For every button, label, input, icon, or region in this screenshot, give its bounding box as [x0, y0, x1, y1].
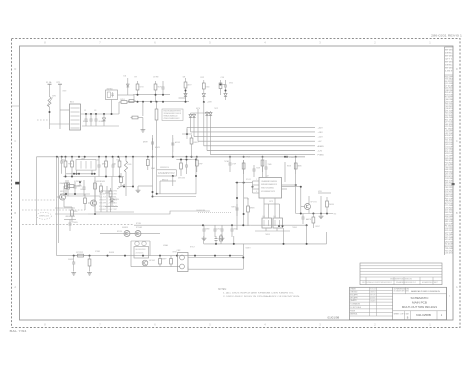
label value 45	[315, 226, 321, 228]
svg-text:ZWMUUCR4MAPKUHVR2: ZWMUUCR4MAPKUHVR2	[164, 117, 180, 120]
wire dashed line sense 2	[22, 209, 85, 211]
svg-text:V8NCT4V42MM12: V8NCT4V42MM12	[261, 188, 274, 190]
wire Q1 collector	[63, 186, 65, 194]
junction T1 b	[152, 196, 154, 198]
label R32	[329, 204, 335, 206]
U5 text2	[136, 252, 145, 254]
zone number bottom 6	[154, 323, 156, 327]
svg-text:2. NXN U56FC NVGV IN 2Z94NA AN: 2. NXN U56FC NVGV IN 2Z94NA ANXX OF FBCM…	[223, 295, 301, 298]
junction lrr c	[320, 213, 322, 215]
label value 21	[199, 163, 204, 165]
capacitor C33	[302, 214, 305, 225]
junction lr a	[215, 243, 217, 245]
label value 4	[99, 120, 104, 123]
zone letter left D	[14, 67, 16, 71]
label C3	[94, 110, 96, 112]
sheet inner border	[20, 46, 454, 320]
fold tick left margin	[12, 105, 20, 107]
resistor R33	[75, 254, 88, 257]
svg-text:B44KSMS2RER: B44KSMS2RER	[136, 249, 147, 251]
label value 50	[269, 201, 274, 203]
wire sec label line	[318, 192, 331, 194]
title block row value 3	[370, 294, 376, 296]
svg-text:B&L 7/94: B&L 7/94	[10, 329, 27, 333]
wire U5 left	[130, 241, 132, 267]
svg-text:FDM5: FDM5	[128, 164, 132, 166]
svg-text:+5V: +5V	[318, 141, 322, 143]
junction lr b	[233, 243, 235, 245]
notes line 1	[223, 291, 295, 294]
wire loop inner 3	[159, 181, 161, 194]
label value 26	[287, 165, 292, 167]
wire loop inner 2	[160, 180, 176, 182]
svg-text:+42V: +42V	[318, 127, 324, 129]
capacitor C34	[74, 182, 77, 194]
svg-text:573G: 573G	[140, 86, 145, 88]
wire opto drop 1	[265, 228, 267, 231]
U2 pin numbers left	[256, 179, 257, 181]
wire x237 below	[236, 183, 238, 230]
svg-text:AMERICAN POWER CONVERSION: AMERICAN POWER CONVERSION	[411, 290, 440, 293]
wire opto feed 4	[279, 204, 281, 218]
wire lr riser mid	[306, 225, 308, 244]
wire x243 below	[243, 183, 245, 226]
wire R30 top v	[247, 198, 249, 200]
choke box L2	[76, 160, 96, 171]
wire Q5 emit	[308, 209, 310, 213]
label U2 pins	[246, 179, 251, 181]
label Q6	[122, 227, 129, 229]
svg-text:AN77: AN77	[188, 83, 192, 86]
svg-text:REF DES: REF DES	[445, 50, 453, 52]
junction bus 20	[243, 156, 245, 158]
revision row text b	[396, 281, 417, 284]
junction bus 15	[172, 156, 174, 158]
junction DC+ d	[103, 113, 105, 115]
potentiometer VR1 arrow	[117, 184, 133, 189]
net label +42V	[318, 127, 324, 129]
svg-text:ZKHBPLCUZG: ZKHBPLCUZG	[39, 215, 49, 217]
svg-text:R7: R7	[135, 77, 137, 79]
U2 pin numbers left 2	[256, 191, 257, 193]
junction Q1c	[79, 181, 81, 183]
zone letter left B	[14, 211, 16, 215]
wire AC-L lower	[49, 107, 51, 129]
wire gnd spur	[137, 186, 139, 189]
svg-text:SIZE: SIZE	[406, 314, 409, 316]
junction low1 a	[202, 224, 204, 226]
zone letter left A	[14, 285, 16, 289]
zone number bottom 2	[374, 323, 376, 327]
label U2	[266, 175, 269, 177]
svg-text:C10: C10	[221, 77, 224, 79]
wire q6q7 link	[130, 233, 135, 235]
svg-text:DESC: DESC	[445, 53, 454, 55]
label U3	[263, 216, 265, 218]
resistor R43	[180, 160, 183, 177]
title block row label 4	[350, 296, 357, 299]
svg-text:UL72: UL72	[99, 197, 106, 199]
wire diode feed	[191, 112, 211, 114]
svg-text:5NG31: 5NG31	[77, 185, 82, 187]
wire bus drop 2	[190, 120, 192, 132]
label Q5	[311, 202, 317, 204]
junction bus 5	[78, 156, 80, 158]
svg-text:EKZS3: EKZS3	[81, 189, 86, 191]
title block row label 6	[350, 303, 360, 306]
zone number top 1	[429, 41, 431, 45]
wire bus drop 4	[197, 116, 199, 141]
wire primary bus	[37, 156, 306, 158]
wire x262 above	[262, 160, 264, 178]
junction x243 b	[243, 213, 245, 215]
title line schematic	[411, 296, 430, 300]
label C35	[73, 222, 79, 224]
junction U2 out	[295, 184, 297, 186]
capacitor C26	[215, 236, 218, 244]
svg-text:KWNSZSX2G: KWNSZSX2G	[160, 167, 169, 169]
junction rail2 e	[162, 101, 164, 103]
wire low main bus	[60, 255, 243, 257]
wire AC-N	[59, 84, 61, 129]
wire Q3 emit	[94, 206, 96, 212]
callout text	[39, 215, 49, 217]
svg-text:9W4DS: 9W4DS	[329, 204, 335, 206]
capacitor C19	[253, 165, 256, 177]
junction lowbus 1	[73, 255, 75, 257]
wire CN2 pin2	[188, 268, 243, 270]
resistor R18	[105, 157, 108, 177]
svg-text:UWTLXN3: UWTLXN3	[178, 178, 185, 180]
svg-text:FM5D: FM5D	[74, 211, 79, 213]
drawing number	[416, 313, 431, 317]
svg-text:RL7SD: RL7SD	[83, 121, 89, 123]
wire D14 bottom rail	[105, 206, 118, 208]
wire lr riser right	[326, 232, 328, 244]
resistor R29	[261, 157, 264, 172]
wire opto feed h	[264, 203, 280, 205]
wire bus net +5V	[198, 140, 315, 142]
svg-text:C: C	[14, 139, 16, 143]
junction bus 2	[61, 156, 63, 158]
junction CN2 r	[242, 257, 244, 259]
junction bus 22	[286, 156, 288, 158]
capacitor C18	[229, 157, 232, 172]
svg-text:6LP85Z4X: 6LP85Z4X	[74, 181, 83, 183]
svg-text:64WVM2HRD: 64WVM2HRD	[96, 181, 105, 183]
junction AC-L	[49, 111, 51, 113]
diode D11	[192, 113, 195, 120]
diode D9	[224, 92, 227, 100]
wire U2 out1	[282, 184, 296, 186]
svg-text:WPDSK: WPDSK	[109, 194, 119, 196]
label loop	[162, 179, 169, 181]
right edge center mark	[452, 183, 455, 185]
feedback loop wire	[157, 160, 196, 194]
svg-text:CSVFFD1RF: CSVFFD1RF	[196, 210, 206, 212]
wire MOV stub dashed	[37, 119, 50, 121]
label value 2	[63, 90, 68, 92]
svg-text:REF DES: REF DES	[445, 56, 453, 58]
resistor R9	[154, 81, 157, 102]
transistor Q7	[135, 231, 141, 237]
label C34	[77, 185, 82, 187]
svg-text:C: C	[456, 139, 458, 143]
wire U2 left drop	[252, 181, 254, 193]
zone col letter	[449, 296, 451, 298]
note box text row 2	[164, 112, 182, 115]
junction bus 1	[56, 156, 58, 158]
svg-text:01/01/98: 01/01/98	[328, 315, 340, 319]
svg-text:MAIN PCB: MAIN PCB	[412, 300, 427, 304]
reference U5 circle A	[135, 241, 139, 245]
label value 16	[128, 164, 132, 166]
junction rail1 b	[155, 94, 157, 96]
zone letter right D	[456, 67, 458, 71]
label value 38	[163, 244, 168, 247]
zone number top 4	[264, 41, 266, 45]
note box text row 4	[164, 117, 180, 120]
label BD1	[70, 102, 75, 104]
label value 36	[95, 251, 100, 253]
wire G7 stub	[320, 214, 322, 216]
label value 3	[83, 121, 89, 123]
snubber box Z1	[106, 90, 118, 100]
resistor R31	[312, 214, 315, 229]
title block row label 9	[350, 313, 357, 316]
wire x300 seg	[300, 187, 302, 214]
svg-text:SG8BFS: SG8BFS	[122, 227, 129, 229]
svg-text:SHEET 1 OF 2: SHEET 1 OF 2	[394, 314, 405, 316]
zone letter right B	[456, 211, 458, 215]
svg-text:TDNG3: TDNG3	[292, 227, 297, 229]
label cluster b	[96, 181, 105, 183]
wire Q5 col	[308, 196, 310, 204]
svg-text:KR75F2: KR75F2	[370, 294, 376, 296]
company name	[411, 290, 440, 293]
wire Q1e link	[64, 206, 72, 208]
resistor R36	[170, 256, 173, 267]
svg-text:GKT2P: GKT2P	[109, 209, 119, 211]
svg-text:4LSF: 4LSF	[99, 194, 106, 196]
svg-text:SCHEMATIC: SCHEMATIC	[411, 296, 430, 300]
wire bus net +12V	[194, 136, 315, 138]
junction U2 in a	[236, 182, 238, 184]
wire DC+ rail	[81, 113, 120, 115]
svg-text:-12V: -12V	[318, 151, 323, 153]
resistor R22	[71, 207, 74, 222]
wire R13 lower	[203, 99, 205, 102]
svg-text:C3: C3	[94, 110, 96, 112]
wire opto right drop	[283, 228, 285, 244]
svg-text:Z58SN: Z58SN	[73, 222, 79, 224]
wire x95 drop	[94, 177, 96, 215]
wire loop top	[156, 157, 158, 170]
zone number top 5	[209, 41, 211, 45]
transistor Q3	[91, 200, 97, 206]
junction snubber	[111, 113, 113, 115]
svg-text:7559: 7559	[256, 167, 260, 169]
svg-text:VKM7: VKM7	[99, 200, 106, 202]
svg-text:CHECKED: CHECKED	[350, 292, 357, 294]
revision row text a	[362, 282, 392, 284]
resistor R14	[131, 116, 143, 119]
svg-text:REF DES: REF DES	[445, 68, 453, 70]
wire opto feed 1	[263, 198, 265, 218]
wire x243 above	[243, 160, 245, 183]
wire subrail C	[64, 195, 100, 197]
wire dashed isolation	[22, 224, 134, 226]
capacitor C16	[151, 138, 154, 150]
svg-text:FPW3: FPW3	[246, 157, 250, 159]
capacitor C17	[171, 138, 174, 152]
svg-text:C9 R9: C9 R9	[153, 77, 158, 79]
zone number bottom 4	[264, 323, 266, 327]
label value 20	[194, 142, 199, 144]
node cross start	[182, 129, 192, 139]
junction lowbus 3	[107, 255, 109, 257]
wire bus net -12V	[207, 150, 315, 152]
junction loop tr	[180, 159, 182, 161]
svg-text:AHSRT: AHSRT	[143, 140, 149, 143]
capacitor C2	[90, 114, 93, 126]
wire c35 rail	[64, 219, 76, 221]
parts list rows	[445, 76, 454, 254]
label C9 R9	[153, 77, 158, 79]
wire lr drop a	[203, 236, 205, 244]
wire long left B	[57, 157, 59, 243]
svg-text:M98FP: M98FP	[162, 258, 168, 260]
resistor R10	[184, 78, 187, 102]
resistor R16	[64, 157, 67, 177]
resistor R25	[100, 183, 103, 200]
svg-text:A: A	[14, 285, 16, 289]
wire aux link	[221, 84, 226, 86]
wire CN2 riser	[242, 244, 244, 269]
title block frame	[350, 287, 447, 319]
wire U2 in rail	[235, 182, 253, 184]
resistor R5	[128, 100, 136, 103]
note box startup	[162, 109, 183, 121]
net label +12V	[318, 137, 324, 139]
wire aux c1 left	[179, 97, 186, 99]
wire R4 to T1	[133, 95, 135, 102]
wire dashed line sense 1	[22, 199, 57, 201]
resistor R44	[242, 160, 245, 174]
junction opto b	[282, 225, 284, 227]
plot date	[328, 315, 340, 319]
svg-text:3M86: 3M86	[298, 165, 302, 167]
label value 34	[217, 228, 222, 230]
wire loop inner	[172, 176, 174, 186]
svg-text:PGND: PGND	[318, 155, 325, 157]
net label mid	[289, 157, 295, 159]
junction x133	[132, 186, 134, 188]
junction railB d	[119, 176, 121, 178]
svg-text:HDM76: HDM76	[155, 147, 160, 149]
svg-text:AAD7E: AAD7E	[306, 218, 312, 221]
svg-text:D: D	[456, 67, 458, 71]
svg-text:2VBM: 2VBM	[81, 158, 85, 160]
junction VR1	[123, 186, 125, 188]
capacitor C13	[112, 157, 115, 177]
wire up spur x57	[56, 250, 58, 256]
net label +5V	[318, 141, 322, 143]
junction lowbus 7	[176, 255, 178, 257]
wire opto drop 2	[276, 228, 278, 231]
svg-text:31RG: 31RG	[52, 95, 57, 97]
wire bus ext right	[192, 156, 306, 158]
capacitor C10	[224, 80, 227, 92]
junction bus 13	[147, 156, 149, 158]
wire second bottom	[153, 196, 197, 198]
label R35	[162, 258, 168, 260]
junction aux c1	[185, 90, 187, 92]
junction DC+ b	[90, 113, 92, 115]
junction lowbus 2	[89, 255, 91, 257]
svg-text:MULTI-OUT 50W 990-2021: MULTI-OUT 50W 990-2021	[402, 305, 438, 309]
label cluster c	[65, 216, 76, 218]
svg-text:R4EKB: R4EKB	[109, 252, 115, 254]
label CN2	[177, 250, 181, 252]
wire opto feed 3	[274, 198, 276, 218]
title block row label 3	[350, 293, 357, 296]
junction bus 21	[262, 156, 264, 158]
junction rail2 d	[156, 101, 158, 103]
junction railB b	[71, 176, 73, 178]
zone number top 8	[44, 41, 46, 45]
svg-text:4: 4	[256, 191, 257, 193]
junction tap 2	[76, 173, 78, 175]
ground G1	[141, 129, 146, 133]
wire U2 pin4	[253, 192, 260, 194]
note box text row 3	[164, 115, 178, 118]
label value 24	[256, 167, 260, 169]
zone letter right C	[456, 139, 458, 143]
capacitor C15	[106, 186, 109, 212]
label low cluster	[196, 210, 206, 212]
wire x133 seg	[132, 157, 134, 187]
label value 43	[265, 234, 270, 236]
svg-text:A4VUENP17VCZ: A4VUENP17VCZ	[158, 171, 175, 175]
junction midleft b	[74, 193, 76, 195]
wire out rail	[282, 186, 301, 188]
svg-text:B: B	[456, 211, 458, 215]
wire T1 drop	[152, 135, 154, 157]
svg-text:GNH9B4: GNH9B4	[107, 89, 113, 91]
junction VCC node	[203, 101, 205, 103]
label C32	[231, 207, 236, 209]
wire R40 top	[125, 157, 127, 161]
svg-text:C1: C1	[84, 110, 86, 112]
diode D14	[110, 196, 113, 206]
svg-text:1: 1	[256, 179, 257, 181]
label value 15	[112, 162, 116, 165]
resistor R28	[195, 157, 198, 172]
junction rail1 a	[137, 94, 139, 96]
junction lowbus 10	[229, 255, 231, 257]
wire D14 top	[111, 177, 113, 197]
svg-text:6PX8: 6PX8	[173, 251, 177, 253]
svg-text:F1 3A: F1 3A	[46, 81, 52, 84]
resistor R34	[88, 256, 91, 271]
label value 7	[140, 86, 145, 88]
label R12	[201, 77, 204, 79]
junction bus 16	[186, 156, 188, 158]
bridge rectifier BD1	[70, 104, 81, 130]
junction DC+ c	[95, 113, 97, 115]
svg-text:CN2: CN2	[177, 250, 181, 252]
